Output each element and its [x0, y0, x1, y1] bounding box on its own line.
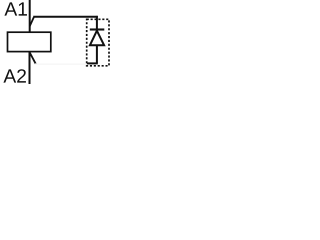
diode enclosure (dashed box): [87, 19, 109, 66]
diode anode lead: [96, 45, 98, 63]
coil K: [8, 32, 51, 51]
wire A2 branch diagonal: [30, 52, 36, 64]
wire bottom horizontal (faint segment): [35, 63, 87, 65]
wire A1 branch diagonal: [30, 17, 34, 26]
label A1: [4, 2, 27, 15]
diode cathode lead: [96, 16, 98, 30]
wire A2 vertical: [29, 52, 31, 84]
wire bottom horizontal into box: [87, 62, 98, 64]
diode triangle (anode, pointing up): [90, 31, 104, 46]
label A2: [3, 69, 25, 82]
wire A1 vertical: [29, 0, 31, 33]
diode cathode bar: [90, 28, 105, 30]
wire top horizontal: [33, 16, 98, 18]
